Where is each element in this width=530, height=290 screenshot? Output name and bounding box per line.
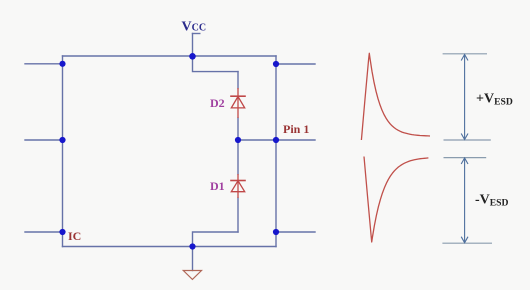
svg-text:D1: D1: [210, 179, 225, 193]
svg-text:VCC: VCC: [182, 20, 207, 35]
svg-text:Pin 1: Pin 1: [283, 122, 309, 136]
svg-text:D2: D2: [210, 96, 225, 110]
svg-text:IC: IC: [68, 229, 81, 243]
